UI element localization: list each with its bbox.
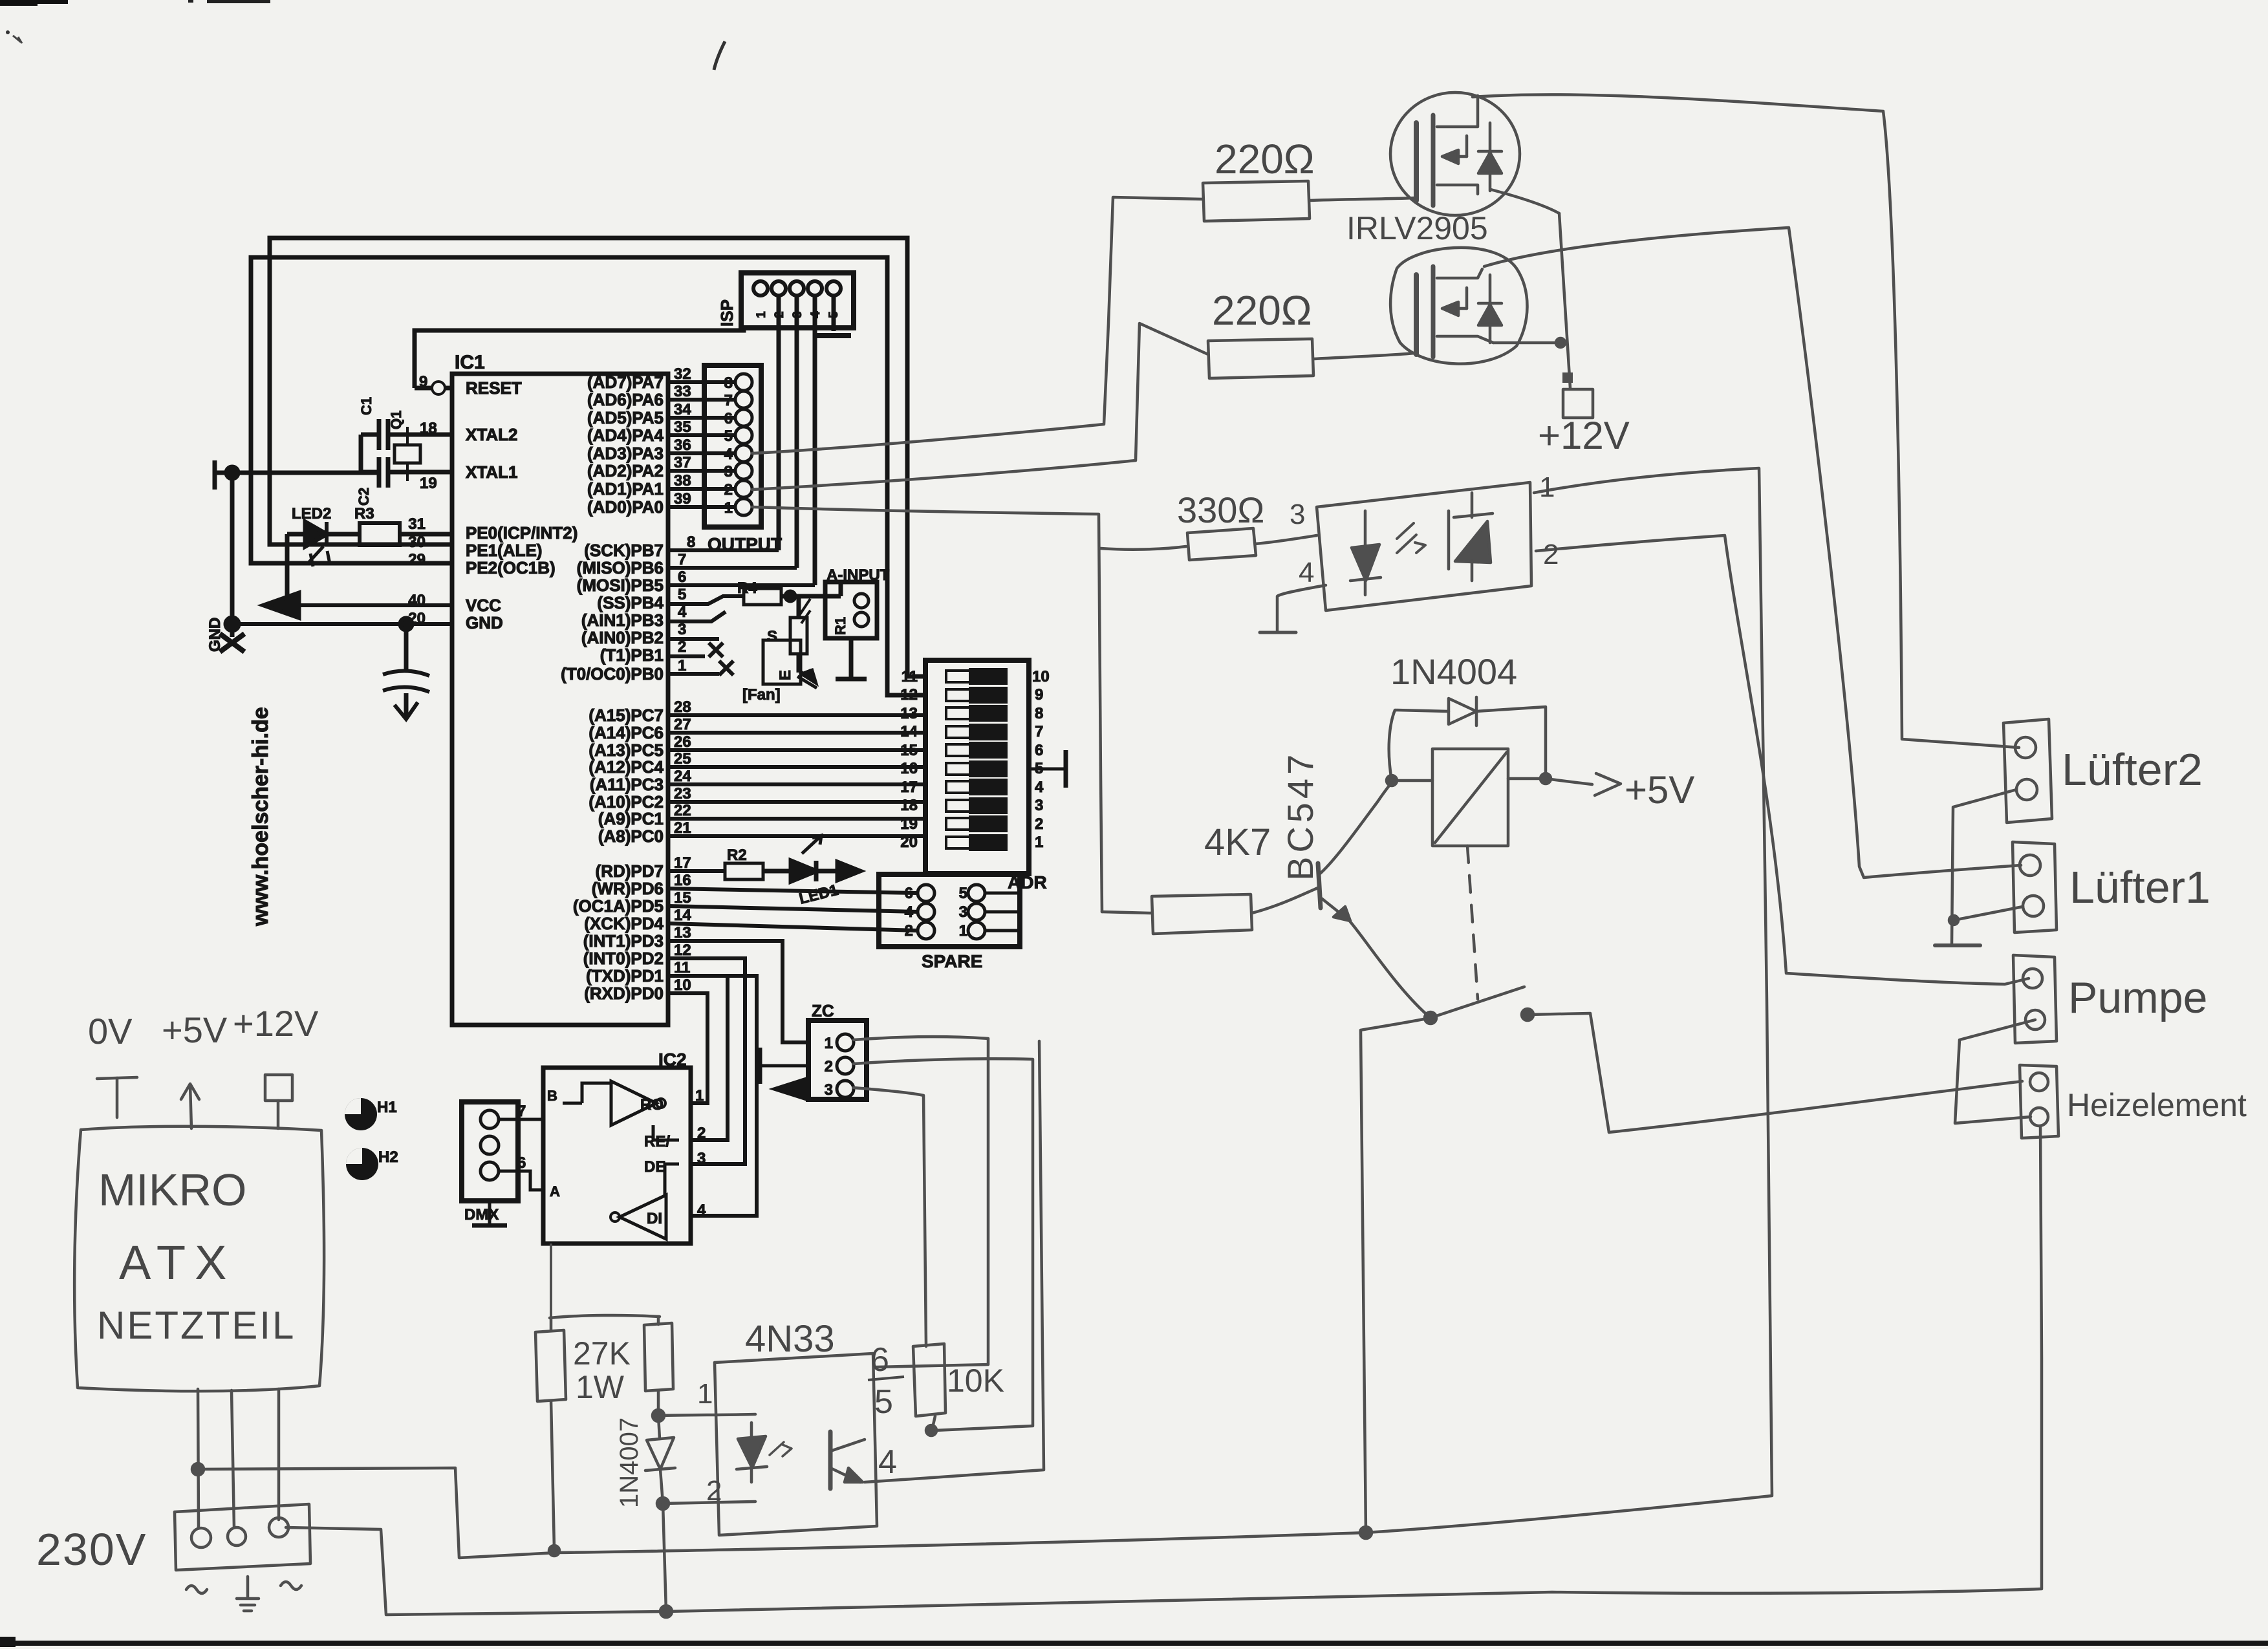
svg-text:+5V: +5V [1625,768,1694,812]
svg-text:1: 1 [959,922,967,940]
svg-text:9: 9 [419,373,427,391]
svg-text:29: 29 [408,551,426,568]
svg-text:11: 11 [902,668,918,685]
svg-text:+12V: +12V [1538,414,1630,457]
svg-text:(AD6)PA6: (AD6)PA6 [587,390,664,409]
svg-text:R2: R2 [727,846,747,864]
svg-text:3: 3 [791,311,805,318]
svg-text:6: 6 [1035,742,1043,759]
svg-text:2: 2 [905,922,913,940]
svg-text:33: 33 [674,383,691,400]
svg-text:3: 3 [1035,797,1043,814]
svg-text:ATX: ATX [119,1236,235,1289]
svg-text:20: 20 [408,610,426,627]
svg-text:(A8)PC0: (A8)PC0 [598,826,664,846]
svg-text:1: 1 [695,1087,704,1105]
svg-text:2: 2 [825,1058,833,1075]
svg-text:3: 3 [697,1150,706,1167]
svg-text:1: 1 [678,657,686,674]
svg-text:(AD0)PA0: (AD0)PA0 [587,497,664,517]
svg-text:(T0/OC0)PB0: (T0/OC0)PB0 [561,664,664,684]
svg-text:220Ω: 220Ω [1212,287,1312,334]
svg-text:10: 10 [1032,668,1050,685]
svg-text:H1: H1 [377,1099,397,1116]
svg-text:14: 14 [674,907,691,924]
svg-text:16: 16 [900,760,918,777]
svg-text:6: 6 [678,568,686,586]
svg-text:R1: R1 [832,617,848,635]
svg-text:1: 1 [825,1035,833,1052]
svg-text:8: 8 [724,374,733,392]
svg-text:27: 27 [674,716,691,733]
svg-text:32: 32 [674,365,691,383]
svg-text:4: 4 [724,446,733,463]
svg-text:(A11)PC3: (A11)PC3 [590,775,664,794]
svg-text:3: 3 [1290,499,1305,530]
svg-text:(AD2)PA2: (AD2)PA2 [587,461,664,480]
svg-text:(AD1)PA1: (AD1)PA1 [587,479,664,499]
svg-text:5: 5 [678,586,686,603]
svg-text:(AD7)PA7: (AD7)PA7 [587,372,664,392]
svg-text:Heizelement: Heizelement [2067,1087,2247,1123]
svg-text:22: 22 [674,802,691,819]
svg-text:4: 4 [1299,557,1314,588]
svg-text:3: 3 [724,463,733,480]
svg-text:18: 18 [900,797,918,814]
svg-text:(XCK)PD4: (XCK)PD4 [584,914,664,933]
svg-text:36: 36 [674,436,691,454]
svg-text:(INT0)PD2: (INT0)PD2 [583,949,664,968]
svg-text:38: 38 [674,472,691,490]
svg-text:230V: 230V [36,1524,147,1575]
svg-text:MIKRO: MIKRO [98,1165,246,1215]
svg-text:ZC: ZC [812,1001,834,1020]
svg-text:(RD)PD7: (RD)PD7 [596,861,664,881]
svg-text:7: 7 [724,392,733,409]
svg-text:2: 2 [706,1475,722,1507]
svg-text:2: 2 [678,638,686,656]
svg-text:GND: GND [466,613,503,632]
svg-text:1: 1 [1035,834,1043,851]
svg-text:IC1: IC1 [455,352,485,373]
svg-text:(SCK)PB7: (SCK)PB7 [584,541,664,560]
svg-text:25: 25 [674,750,691,768]
svg-text:19: 19 [420,475,437,492]
svg-text:10K: 10K [947,1363,1004,1399]
svg-text:PE0(ICP/INT2): PE0(ICP/INT2) [466,523,578,543]
svg-text:E: E [777,670,794,680]
svg-text:4: 4 [697,1202,706,1219]
svg-text:+5V: +5V [162,1009,228,1050]
svg-text:40: 40 [408,592,426,609]
svg-text:C2: C2 [356,488,372,506]
svg-text:H2: H2 [378,1148,398,1166]
svg-text:12: 12 [900,686,918,704]
svg-text:3: 3 [825,1081,833,1099]
svg-text:31: 31 [408,515,426,533]
svg-text:SPARE: SPARE [922,951,982,971]
svg-text:XTAL2: XTAL2 [466,425,517,444]
svg-text:(RXD)PD0: (RXD)PD0 [584,984,664,1003]
svg-text:17: 17 [900,779,918,796]
svg-text:10: 10 [674,976,691,994]
svg-text:6: 6 [517,1154,526,1172]
svg-text:(MISO)PB6: (MISO)PB6 [577,558,664,577]
svg-text:330Ω: 330Ω [1177,490,1264,530]
svg-text:(WR)PD6: (WR)PD6 [592,879,664,898]
svg-text:4: 4 [905,903,914,921]
svg-text:OUTPUT: OUTPUT [707,534,782,554]
svg-text:(A15)PC7: (A15)PC7 [589,706,664,725]
svg-text:A-INPUT: A-INPUT [826,566,890,584]
svg-text:19: 19 [900,815,918,833]
svg-text:R4: R4 [737,579,757,597]
svg-text:(A14)PC6: (A14)PC6 [589,723,664,742]
svg-text:DE: DE [644,1158,665,1176]
svg-text:21: 21 [674,819,691,837]
svg-text:12: 12 [674,942,691,959]
svg-text:6: 6 [905,885,913,902]
svg-text:5: 5 [724,427,733,445]
svg-text:1N4007: 1N4007 [615,1417,643,1508]
svg-text:2: 2 [1035,815,1043,833]
svg-text:5: 5 [874,1383,893,1421]
svg-text:9: 9 [1035,686,1043,704]
svg-text:(MOSI)PB5: (MOSI)PB5 [577,576,664,595]
svg-text:ISP: ISP [717,299,737,327]
svg-text:6: 6 [724,410,733,427]
svg-text:8: 8 [1035,705,1043,722]
svg-text:27K: 27K [573,1335,631,1372]
svg-text:C1: C1 [358,397,374,415]
svg-text:6: 6 [870,1341,889,1379]
svg-text:1: 1 [755,311,768,318]
svg-text:5: 5 [827,311,841,318]
svg-text:1N4004: 1N4004 [1390,651,1517,692]
svg-text:A: A [550,1183,560,1200]
svg-text:S: S [767,628,777,645]
svg-text:34: 34 [674,401,691,418]
svg-text:GND: GND [206,618,224,652]
svg-text:(AD5)PA5: (AD5)PA5 [587,408,664,427]
svg-text:7: 7 [517,1103,526,1120]
svg-text:16: 16 [674,872,691,889]
svg-text:DI: DI [647,1210,662,1227]
svg-text:20: 20 [900,834,918,851]
svg-text:4: 4 [878,1443,897,1481]
svg-text:1: 1 [1539,471,1555,503]
svg-text:RE/: RE/ [644,1133,670,1150]
svg-text:(AIN0)PB2: (AIN0)PB2 [581,628,664,647]
svg-text:(OC1A)PD5: (OC1A)PD5 [573,896,664,916]
svg-text:220Ω: 220Ω [1215,136,1315,182]
svg-text:14: 14 [900,723,918,740]
svg-text:R3: R3 [354,505,374,523]
svg-text:7: 7 [1035,723,1043,740]
svg-text:(AIN1)PB3: (AIN1)PB3 [581,610,664,630]
svg-text:VCC: VCC [466,596,501,615]
svg-text:LED2: LED2 [292,505,331,523]
svg-text:(AD3)PA3: (AD3)PA3 [587,444,664,463]
svg-text:IC2: IC2 [658,1050,687,1070]
svg-text:4: 4 [809,311,823,318]
svg-text:35: 35 [674,418,691,436]
svg-text:RESET: RESET [466,378,522,398]
svg-text:B: B [547,1088,557,1104]
svg-text:23: 23 [674,785,691,803]
svg-text:BC547: BC547 [1280,751,1321,881]
svg-text:11: 11 [674,959,690,976]
svg-text:39: 39 [674,490,691,508]
svg-text:13: 13 [674,924,691,942]
svg-text:www.hoelscher-hi.de: www.hoelscher-hi.de [248,707,273,927]
svg-text:(INT1)PD3: (INT1)PD3 [583,931,664,951]
svg-text:5: 5 [1035,760,1043,777]
svg-text:8: 8 [687,533,695,551]
svg-text:37: 37 [674,454,691,471]
svg-text:4: 4 [678,603,687,621]
svg-text:(SS)PB4: (SS)PB4 [597,593,664,612]
svg-text:15: 15 [900,742,918,759]
svg-text:(A12)PC4: (A12)PC4 [589,757,664,777]
svg-text:15: 15 [674,889,691,907]
svg-text:5: 5 [959,885,967,902]
svg-text:+12V: +12V [233,1003,319,1044]
svg-text:3: 3 [678,621,686,638]
svg-text:XTAL1: XTAL1 [466,462,517,482]
svg-text:(TXD)PD1: (TXD)PD1 [586,966,664,986]
svg-text:Lüfter1: Lüfter1 [2069,862,2210,912]
svg-text:Lüfter2: Lüfter2 [2062,744,2203,795]
svg-text:1W: 1W [576,1369,625,1405]
svg-text:2: 2 [1543,539,1559,570]
svg-text:18: 18 [420,420,437,437]
svg-text:26: 26 [674,733,691,751]
svg-text:(A9)PC1: (A9)PC1 [598,809,664,828]
svg-text:(T1)PB1: (T1)PB1 [600,645,664,665]
svg-text:28: 28 [674,698,691,716]
svg-text:RO: RO [640,1096,664,1114]
svg-text:ADR: ADR [1008,872,1047,892]
svg-text:4: 4 [1035,779,1044,796]
svg-text:IRLV2905: IRLV2905 [1346,210,1488,246]
svg-text:DMX: DMX [464,1206,499,1223]
svg-text:PE2(OC1B): PE2(OC1B) [466,558,556,577]
svg-text:2: 2 [773,311,786,318]
svg-text:17: 17 [674,854,691,872]
svg-text:0V: 0V [88,1011,133,1051]
svg-text:(AD4)PA4: (AD4)PA4 [587,426,664,445]
svg-text:2: 2 [697,1125,706,1142]
svg-text:7: 7 [678,551,686,568]
svg-text:2: 2 [724,481,733,499]
svg-text:13: 13 [900,705,918,722]
svg-text:[Fan]: [Fan] [742,686,781,704]
svg-text:Pumpe: Pumpe [2068,973,2207,1022]
svg-text:24: 24 [674,768,691,785]
svg-text:4N33: 4N33 [745,1318,835,1360]
svg-text:PE1(ALE): PE1(ALE) [466,541,542,560]
svg-text:1: 1 [724,499,733,517]
svg-text:3: 3 [959,903,967,921]
svg-text:Q1: Q1 [388,411,404,429]
svg-text:1: 1 [697,1378,713,1410]
svg-text:4K7: 4K7 [1204,821,1271,863]
svg-text:30: 30 [408,533,426,551]
svg-text:NETZTEIL: NETZTEIL [97,1304,296,1347]
